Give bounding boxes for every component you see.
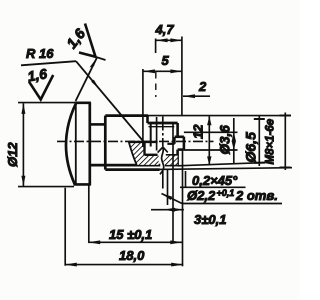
wire ext hole right below <box>167 170 169 205</box>
section bottom right <box>165 164 178 167</box>
centerline main axis <box>57 140 214 142</box>
leader for 2 <box>183 94 210 98</box>
tip step upper <box>176 123 179 137</box>
svg-text:3±0,1: 3±0,1 <box>194 212 226 227</box>
wire long diagonal leader <box>76 61 144 141</box>
wire ext hole axis below <box>162 171 164 189</box>
svg-text:Ø3,6: Ø3,6 <box>218 125 233 155</box>
tip step lower <box>176 150 179 166</box>
svg-text:12: 12 <box>191 124 206 139</box>
dimension 4,7 <box>156 38 183 42</box>
wire ext groove bottom right <box>184 149 238 151</box>
tip end face <box>183 137 186 150</box>
svg-text:0,2×45°: 0,2×45° <box>192 173 238 188</box>
wire R16 leader shelf <box>21 61 76 65</box>
dimension 3+-0,1 <box>151 208 184 212</box>
wire ext 5 left <box>142 69 144 147</box>
groove left wall upper half <box>150 123 152 147</box>
svg-text:4,7: 4,7 <box>155 22 175 37</box>
groove left wall <box>143 142 145 155</box>
neck bottom / section bottom left <box>90 164 161 167</box>
dimension 15 <box>88 240 182 244</box>
section boundary wavy left <box>129 141 137 165</box>
wire ext lower right <box>178 163 265 166</box>
leader O2,2 <box>162 194 183 204</box>
wire ext body bottom right <box>158 168 293 170</box>
body bottom edge <box>105 168 159 171</box>
groove bottom edge <box>145 154 158 156</box>
wavy break line <box>160 147 164 174</box>
wire extension line head bottom left <box>18 186 74 188</box>
undercut step horizontal <box>167 143 174 145</box>
section top edge <box>129 141 158 143</box>
svg-text:15 ±0,1: 15 ±0,1 <box>109 227 152 242</box>
dimension M8 vertical <box>265 113 291 171</box>
wire ext right end top <box>181 37 183 116</box>
mid section top <box>148 122 178 125</box>
wire extension line head top left <box>18 102 76 104</box>
dimension Ø12 <box>5 103 25 186</box>
neck top <box>90 123 106 126</box>
wire ext 4,7 left <box>155 39 157 54</box>
svg-text:2 отв.: 2 отв. <box>235 188 278 203</box>
wire ext head face down <box>88 185 90 243</box>
wire ext dome apex down <box>64 188 66 266</box>
svg-text:5: 5 <box>162 53 170 68</box>
dimension 18 <box>65 263 183 267</box>
tip top <box>175 136 184 139</box>
head top edge <box>75 102 91 105</box>
roughness symbol 1,6 upper <box>64 24 105 61</box>
hatch left blob <box>129 141 159 165</box>
dimension 12 vertical <box>191 116 212 165</box>
right patch top edge <box>166 154 178 156</box>
head bottom edge <box>74 183 91 186</box>
wire leader of upper roughness <box>76 58 97 102</box>
svg-text:18,0: 18,0 <box>119 248 145 263</box>
undercut step vertical <box>174 137 176 144</box>
centerline hole axis <box>162 117 164 147</box>
svg-text:Ø6,5: Ø6,5 <box>243 132 259 163</box>
roughness symbol 1,6 left <box>26 65 53 99</box>
svg-text:Ø12: Ø12 <box>5 142 20 167</box>
head tangent vertical <box>75 103 77 185</box>
wire ext groove top right <box>184 131 238 133</box>
svg-text:2: 2 <box>198 79 207 94</box>
dimension 5 <box>143 69 183 73</box>
svg-text:R 16: R 16 <box>26 46 54 61</box>
svg-text:М8×1-6e: М8×1-6e <box>265 118 277 164</box>
tip bottom <box>178 148 184 151</box>
thread minor line <box>149 126 175 128</box>
body top edge <box>105 114 148 117</box>
arrowhead on diagonal <box>91 80 99 90</box>
svg-text:+0,1: +0,1 <box>217 188 235 198</box>
wire ext 15 right <box>172 123 174 243</box>
hatch right blob <box>163 155 177 165</box>
svg-text:1,6: 1,6 <box>26 65 48 84</box>
wavy break tent <box>158 147 168 153</box>
wire ext 18 right / end face <box>182 150 184 266</box>
dimension Ø3,6 vertical <box>218 118 237 164</box>
head right face <box>88 102 91 185</box>
step down at body right <box>146 116 149 123</box>
wire ext body top right <box>148 115 291 117</box>
body left edge <box>104 116 107 170</box>
leader 0,2x45 <box>185 171 187 187</box>
dimension Ø6,5 vertical <box>243 115 265 166</box>
svg-text:Ø2,2: Ø2,2 <box>187 188 216 203</box>
dome arc of head <box>66 103 76 185</box>
